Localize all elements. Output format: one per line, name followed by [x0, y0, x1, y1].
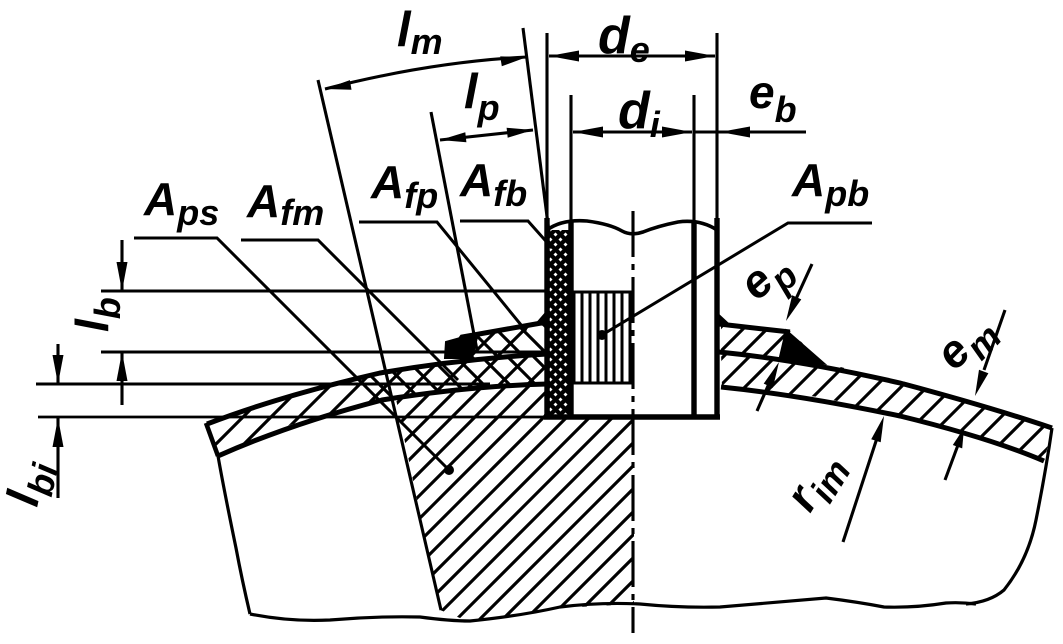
weld fillet plate-branch right — [717, 312, 731, 327]
bottom break (wavy) — [250, 598, 976, 621]
ext line d_i left — [569, 95, 572, 222]
plate right top surface — [719, 324, 790, 332]
leader A_fb — [460, 221, 552, 248]
shell left outer surface — [207, 354, 547, 424]
shell left break edge — [218, 456, 250, 614]
A_pb top border — [571, 291, 633, 294]
ext line l_m/l_p right — [523, 28, 549, 232]
dimension l_bi — [56, 344, 59, 384]
dimension l_m — [325, 57, 527, 89]
branch left wall inner line — [568, 222, 573, 417]
ext line l_p left — [431, 112, 477, 350]
branch top break (wavy) — [547, 221, 717, 234]
dimension e_m — [984, 310, 1005, 370]
leader A_ps — [134, 238, 449, 470]
plate right end weld — [779, 330, 825, 364]
ext line d_i right — [692, 95, 695, 222]
dimension l_b — [120, 240, 123, 291]
dimension l_p — [440, 130, 533, 140]
shell right inner surface — [721, 387, 1044, 461]
leader dot A_ps — [444, 465, 454, 475]
leader A_fp — [359, 222, 526, 331]
ref line C (shell outer at branch) — [101, 350, 547, 353]
A_pb bottom border — [571, 381, 633, 384]
ext line d_e right — [715, 33, 718, 218]
hatch A_pb (vertical lines) — [574, 293, 630, 383]
hatch right shell band — [220, 100, 1063, 644]
branch right wall outer line — [714, 218, 719, 417]
hatch right plate band — [188, 100, 1063, 644]
ref line B (top of A_pb) — [101, 289, 547, 292]
ext line d_e left — [545, 33, 548, 218]
branch left wall outer line — [544, 218, 549, 417]
dimension d_i — [573, 130, 692, 133]
plate left top surface — [455, 322, 547, 347]
dimension d_e — [549, 54, 715, 57]
leader A_fm — [241, 240, 458, 380]
dimension r_im — [843, 432, 879, 542]
dimension e_b — [694, 130, 806, 133]
hatch left plate band — [0, 100, 754, 644]
leader A_pb — [602, 223, 872, 335]
ref line D (shell inner at branch) — [36, 382, 490, 385]
dimension e_p — [790, 264, 812, 312]
ext line l_m left (also A_ps limit) — [318, 80, 441, 610]
shell right break edge — [966, 428, 1052, 604]
hatch left shell band — [0, 100, 840, 644]
hatch overlay A_fm zone — [95, 100, 877, 644]
branch bottom end face — [544, 414, 720, 419]
shell left end edge — [206, 423, 218, 456]
centerline (axis) — [631, 211, 634, 633]
weld fillet plate-branch left — [534, 310, 547, 326]
shell left inner surface — [218, 384, 547, 456]
ref line E (branch inner end) — [38, 416, 545, 419]
plate left end weld — [445, 333, 478, 358]
branch right wall inner line — [691, 222, 696, 417]
hatch overlay A_fp zone — [215, 100, 919, 644]
leader dot A_pb — [597, 330, 607, 340]
shell right outer surface — [719, 352, 1052, 428]
